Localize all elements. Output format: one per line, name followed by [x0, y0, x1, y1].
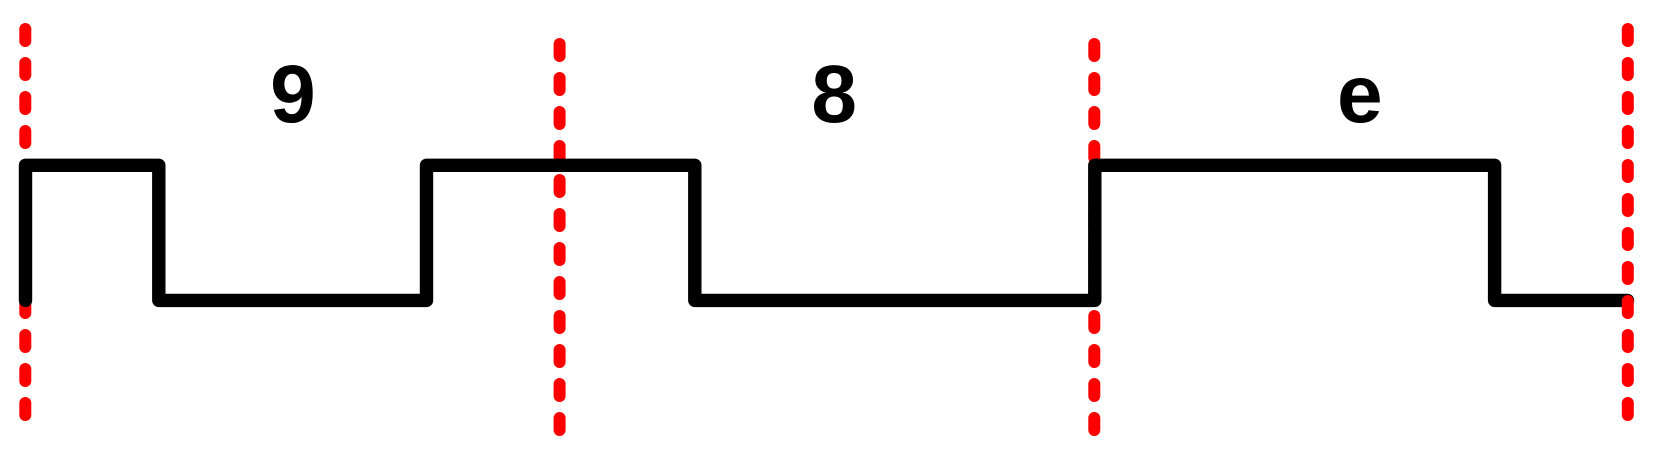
svg-text:8: 8: [811, 49, 857, 140]
svg-text:e: e: [1337, 49, 1383, 140]
bit-boundary dashed line 4 (right, drawn over trace): [1622, 29, 1634, 415]
svg-text:9: 9: [270, 49, 316, 140]
bit-boundary dashed line 2: [554, 44, 566, 430]
bit-boundary dashed line 3: [1088, 44, 1100, 430]
waveform signal trace: [26, 165, 1628, 300]
bit-boundary dashed line 1 (left): [19, 29, 31, 415]
